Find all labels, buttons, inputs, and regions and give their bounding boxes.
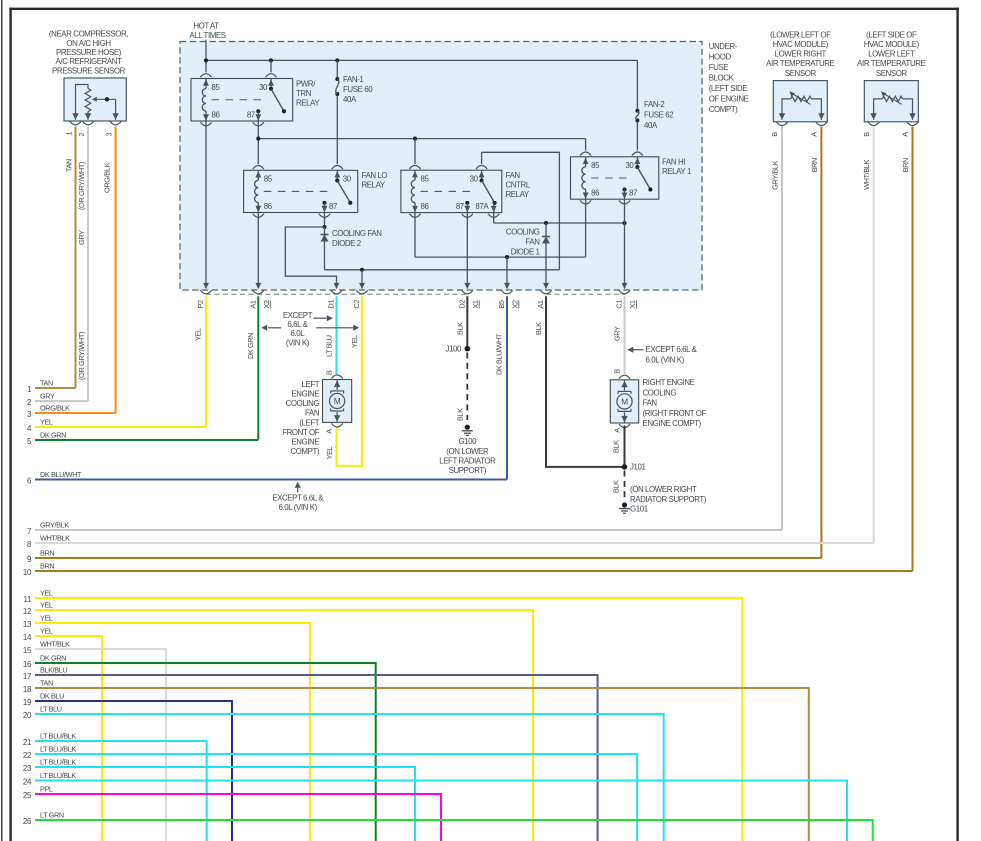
svg-text:BRN: BRN [901,158,910,172]
svg-text:B: B [613,369,622,374]
svg-text:EXCEPT: EXCEPT [283,311,313,320]
svg-text:EXCEPT 6.6L &: EXCEPT 6.6L & [272,494,324,503]
svg-text:6.0L (VIN K): 6.0L (VIN K) [279,503,318,512]
svg-text:TRN: TRN [296,89,312,98]
svg-text:BLOCK: BLOCK [709,73,735,82]
svg-text:BLK: BLK [612,480,621,493]
svg-text:G100: G100 [458,437,477,446]
svg-text:BLK: BLK [534,322,543,335]
svg-text:C2: C2 [352,300,361,309]
svg-text:HOOD: HOOD [709,52,732,61]
svg-text:LEFT: LEFT [301,380,319,389]
svg-text:A1: A1 [248,300,257,309]
svg-text:GRY: GRY [77,230,86,245]
svg-text:X2: X2 [511,300,520,309]
svg-text:(RIGHT FRONT OF: (RIGHT FRONT OF [643,409,707,418]
svg-text:GRY/BLK: GRY/BLK [770,160,779,189]
svg-text:ORG/BLK: ORG/BLK [103,162,112,193]
svg-text:LT BLU: LT BLU [325,335,334,357]
svg-text:YEL: YEL [40,601,53,610]
svg-text:PRESSURE HOSE): PRESSURE HOSE) [56,48,122,57]
svg-text:(LOWER LEFT OF: (LOWER LEFT OF [770,30,831,39]
svg-text:LT BLU: LT BLU [40,705,62,714]
svg-text:FUSE 60: FUSE 60 [343,85,373,94]
svg-text:EXCEPT 6.6L &: EXCEPT 6.6L & [646,345,698,354]
svg-text:1: 1 [65,132,74,136]
svg-text:24: 24 [23,777,32,786]
svg-text:85: 85 [264,175,273,184]
svg-text:20: 20 [23,711,32,720]
svg-text:GRY: GRY [40,392,55,401]
svg-text:87A: 87A [475,202,489,211]
svg-text:A/C REFRIGERANT: A/C REFRIGERANT [56,57,122,66]
svg-text:LT BLU/BLK: LT BLU/BLK [40,771,76,780]
svg-text:YEL: YEL [194,328,203,341]
svg-text:LT GRN: LT GRN [40,811,64,820]
svg-text:85: 85 [212,83,221,92]
svg-text:6.0L (VIN K): 6.0L (VIN K) [646,356,685,365]
svg-text:22: 22 [23,751,32,760]
svg-text:DK GRN: DK GRN [246,333,255,359]
svg-text:BLK: BLK [455,322,464,335]
svg-text:21: 21 [23,738,32,747]
svg-text:13: 13 [23,620,32,629]
svg-text:FAN: FAN [525,237,540,246]
svg-text:YEL: YEL [350,335,359,348]
svg-text:11: 11 [23,595,31,604]
svg-text:FAN LO: FAN LO [362,171,388,180]
svg-text:19: 19 [23,698,32,707]
svg-text:TAN: TAN [40,679,53,688]
svg-text:87: 87 [456,202,464,211]
svg-text:FUSE: FUSE [709,63,729,72]
svg-text:WHT/BLK: WHT/BLK [862,160,871,190]
svg-text:A1: A1 [536,300,545,309]
svg-text:YEL: YEL [40,589,53,598]
svg-text:30: 30 [343,175,352,184]
svg-text:X2: X2 [262,300,271,309]
svg-text:BRN: BRN [40,549,54,558]
svg-text:BRN: BRN [40,562,54,571]
svg-text:DK BLU: DK BLU [40,692,64,701]
svg-text:P2: P2 [196,300,205,309]
svg-text:BRN: BRN [810,158,819,172]
svg-text:86: 86 [264,202,273,211]
svg-text:(LEFT SIDE OF: (LEFT SIDE OF [866,30,917,39]
svg-text:DK GRN: DK GRN [40,654,66,663]
svg-text:(VIN K): (VIN K) [286,338,310,347]
svg-text:FAN-1: FAN-1 [343,75,363,84]
svg-text:26: 26 [23,817,32,826]
svg-text:6.0L: 6.0L [291,329,306,338]
svg-text:PRESSURE SENSOR: PRESSURE SENSOR [52,66,126,75]
svg-text:FAN HI: FAN HI [662,158,685,167]
svg-text:DK GRN: DK GRN [40,431,66,440]
svg-text:ORG/BLK: ORG/BLK [40,404,70,413]
svg-text:SENSOR: SENSOR [785,69,817,78]
svg-text:B5: B5 [497,300,506,309]
svg-text:BLK: BLK [456,408,465,421]
svg-text:FAN: FAN [643,399,658,408]
svg-text:RADIATOR SUPPORT): RADIATOR SUPPORT) [630,495,707,504]
svg-text:WHT/BLK: WHT/BLK [40,640,70,649]
svg-text:AIR TEMPERATURE: AIR TEMPERATURE [766,59,834,68]
svg-text:ENGINE: ENGINE [291,438,319,447]
svg-text:(LEFT SIDE: (LEFT SIDE [709,84,748,93]
svg-text:30: 30 [259,83,268,92]
svg-text:DK BLU/WHT: DK BLU/WHT [495,333,504,375]
svg-text:D1: D1 [327,300,336,309]
svg-text:LOWER LEFT: LOWER LEFT [868,50,915,59]
svg-text:(ON LOWER: (ON LOWER [446,447,489,456]
svg-text:ENGINE: ENGINE [291,390,319,399]
svg-text:2: 2 [77,133,86,137]
svg-text:(ON LOWER RIGHT: (ON LOWER RIGHT [630,485,697,494]
svg-text:FAN: FAN [305,409,320,418]
svg-text:15: 15 [23,646,32,655]
svg-text:6.6L &: 6.6L & [287,320,308,329]
svg-text:COOLING: COOLING [506,227,540,236]
svg-text:YEL: YEL [40,614,53,623]
svg-text:M: M [621,398,628,407]
svg-text:85: 85 [421,175,430,184]
svg-text:M: M [334,397,341,406]
svg-text:A: A [613,428,622,433]
svg-text:COOLING: COOLING [643,388,677,397]
svg-text:UNDER-: UNDER- [709,42,738,51]
svg-text:(LEFT: (LEFT [299,418,319,427]
svg-text:ON A/C HIGH: ON A/C HIGH [66,39,111,48]
svg-text:17: 17 [23,672,32,681]
svg-text:J101: J101 [630,463,646,472]
svg-text:FAN: FAN [506,171,521,180]
svg-text:RIGHT ENGINE: RIGHT ENGINE [643,378,695,387]
svg-text:12: 12 [23,607,32,616]
svg-text:LOWER RIGHT: LOWER RIGHT [775,50,827,59]
svg-text:COOLING: COOLING [286,399,320,408]
svg-text:PPL: PPL [40,785,53,794]
svg-text:23: 23 [23,764,32,773]
svg-text:DK BLU/WHT: DK BLU/WHT [40,470,82,479]
svg-text:18: 18 [23,685,32,694]
svg-text:ALL TIMES: ALL TIMES [189,31,225,40]
svg-text:FRONT OF: FRONT OF [282,428,320,437]
svg-text:16: 16 [23,660,32,669]
svg-text:(OR GRY/WHT): (OR GRY/WHT) [77,332,86,380]
svg-text:87: 87 [629,189,637,198]
svg-text:25: 25 [23,791,32,800]
svg-text:10: 10 [23,568,32,577]
svg-text:A: A [810,132,819,137]
svg-text:RELAY 1: RELAY 1 [662,167,691,176]
svg-text:HVAC MODULE): HVAC MODULE) [864,40,920,49]
svg-text:14: 14 [23,633,32,642]
svg-text:LEFT RADIATOR: LEFT RADIATOR [439,457,496,466]
svg-text:85: 85 [591,161,600,170]
svg-text:TAN: TAN [65,159,74,172]
svg-text:B: B [770,132,779,137]
svg-text:86: 86 [591,189,600,198]
svg-text:BLK/BLU: BLK/BLU [40,666,67,675]
svg-text:X1: X1 [471,300,480,309]
svg-text:FUSE 62: FUSE 62 [644,111,673,120]
svg-text:3: 3 [104,133,113,137]
svg-text:YEL: YEL [40,627,53,636]
svg-text:RELAY: RELAY [296,99,320,108]
svg-text:40A: 40A [343,95,357,104]
svg-text:COOLING FAN: COOLING FAN [332,229,382,238]
svg-text:HVAC MODULE): HVAC MODULE) [773,40,829,49]
svg-text:DIODE 2: DIODE 2 [332,239,361,248]
svg-text:TAN: TAN [40,379,53,388]
svg-text:87: 87 [329,202,337,211]
svg-text:J100: J100 [445,345,462,354]
svg-text:WHT/BLK: WHT/BLK [40,534,70,543]
svg-text:ENGINE COMPT): ENGINE COMPT) [643,419,702,428]
svg-text:(NEAR COMPRESSOR,: (NEAR COMPRESSOR, [49,30,128,39]
svg-text:G101: G101 [630,504,648,513]
svg-text:86: 86 [421,202,430,211]
svg-text:YEL: YEL [40,418,53,427]
svg-text:30: 30 [470,175,479,184]
svg-text:C1: C1 [615,300,624,309]
svg-text:OF ENGINE: OF ENGINE [709,94,749,103]
svg-text:COMPT): COMPT) [290,447,319,456]
svg-text:CNTRL: CNTRL [506,181,531,190]
svg-text:X1: X1 [628,300,637,309]
svg-text:B: B [862,132,871,137]
svg-text:LT BLU/BLK: LT BLU/BLK [40,745,76,754]
svg-text:86: 86 [212,110,221,119]
svg-text:SENSOR: SENSOR [876,69,908,78]
svg-text:PWR/: PWR/ [296,79,316,88]
svg-text:LT BLU/BLK: LT BLU/BLK [40,758,76,767]
svg-text:30: 30 [625,161,634,170]
svg-text:B: B [325,370,334,375]
svg-text:(OR GRY/WHT): (OR GRY/WHT) [77,162,86,210]
svg-text:DIODE 1: DIODE 1 [511,248,540,257]
svg-text:FAN-2: FAN-2 [644,100,664,109]
svg-text:87: 87 [247,110,255,119]
svg-text:LT BLU/BLK: LT BLU/BLK [40,732,76,741]
svg-text:COMPT): COMPT) [709,105,738,114]
svg-text:RELAY: RELAY [506,190,530,199]
svg-text:40A: 40A [644,121,658,130]
svg-text:D2: D2 [457,300,466,309]
svg-text:GRY/BLK: GRY/BLK [40,521,69,530]
svg-text:AIR TEMPERATURE: AIR TEMPERATURE [857,59,925,68]
svg-text:RELAY: RELAY [362,181,386,190]
svg-text:A: A [325,429,334,434]
svg-text:YEL: YEL [325,447,334,460]
svg-text:GRY: GRY [613,326,622,341]
svg-text:HOT AT: HOT AT [193,21,219,30]
svg-text:SUPPORT): SUPPORT) [449,466,487,475]
svg-text:A: A [901,132,910,137]
svg-text:BLK: BLK [612,440,621,453]
